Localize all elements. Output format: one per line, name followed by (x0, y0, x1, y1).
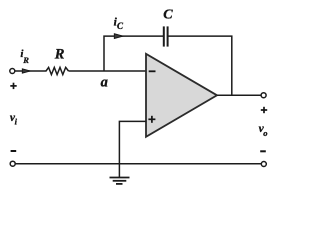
svg-text:o: o (263, 128, 267, 138)
resistor R (46, 67, 69, 74)
plus sign at input terminal (10, 83, 16, 89)
output terminal (top-right, v_o +) (261, 93, 266, 98)
wire: op-amp output to output terminal (217, 94, 261, 96)
wire: capacitor to feedback corner and down to output (168, 36, 231, 95)
wire: input terminal to resistor R (15, 70, 47, 72)
svg-text:R: R (54, 47, 65, 63)
current arrow i_R (22, 69, 30, 73)
lower-right terminal (261, 162, 266, 167)
svg-text:a: a (101, 74, 108, 90)
minus sign at lower-right terminal (260, 150, 266, 152)
wire: non-inverting input to ground node (119, 121, 146, 163)
current arrow i_C (114, 34, 123, 39)
svg-text:C: C (117, 21, 124, 31)
bottom return wire (15, 163, 261, 165)
op-amp U1 (146, 54, 217, 137)
minus sign at lower-left terminal (11, 150, 17, 152)
capacitor C left plate (163, 26, 165, 46)
op-amp non-inverting input mark (+) (148, 116, 155, 123)
lower-left terminal (10, 161, 15, 166)
op-amp inverting input mark (-) (149, 70, 156, 72)
svg-text:C: C (163, 8, 173, 23)
plus sign at output terminal (261, 107, 267, 113)
ground symbol (110, 178, 130, 184)
input terminal (top-left, v_i +) (10, 69, 15, 74)
wire: resistor to op-amp inverting input (69, 70, 147, 72)
capacitor C right plate (167, 26, 169, 46)
wire: node a up to feedback branch (104, 36, 163, 71)
svg-text:R: R (22, 55, 29, 65)
ground stem (118, 164, 120, 178)
